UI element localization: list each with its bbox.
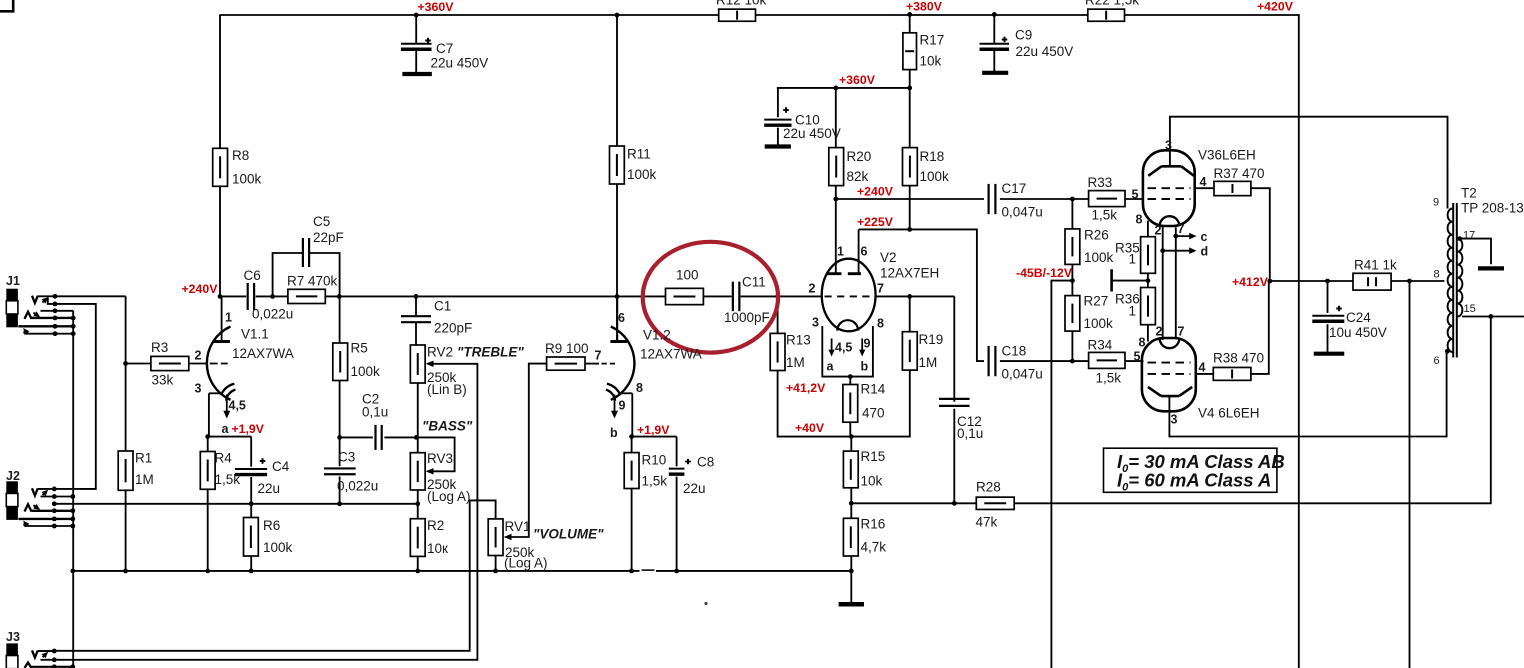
svg-text:C3: C3 xyxy=(338,450,355,465)
svg-text:R36: R36 xyxy=(1115,292,1140,307)
svg-text:C4: C4 xyxy=(272,459,290,474)
svg-text:R35: R35 xyxy=(1115,241,1140,256)
svg-text:C1: C1 xyxy=(434,299,451,314)
svg-text:9: 9 xyxy=(864,337,871,351)
svg-text:RV1: RV1 xyxy=(505,519,531,534)
svg-text:R15: R15 xyxy=(861,449,886,464)
svg-text:R37 470: R37 470 xyxy=(1214,166,1265,181)
svg-text:3: 3 xyxy=(195,382,202,396)
svg-text:9: 9 xyxy=(1433,197,1439,209)
svg-text:"VOLUME": "VOLUME" xyxy=(533,527,604,542)
svg-text:0,022u: 0,022u xyxy=(252,307,293,322)
svg-text:22u: 22u xyxy=(683,481,706,496)
svg-text:7: 7 xyxy=(877,282,884,296)
svg-text:R27: R27 xyxy=(1084,294,1109,309)
svg-text:R8: R8 xyxy=(232,148,249,163)
svg-text:T2: T2 xyxy=(1461,186,1477,201)
svg-text:6: 6 xyxy=(1434,355,1440,367)
svg-text:C9: C9 xyxy=(1015,28,1032,43)
svg-text:+41,2V: +41,2V xyxy=(786,381,826,395)
svg-text:100k: 100k xyxy=(351,364,381,379)
svg-text:1,5k: 1,5k xyxy=(642,474,668,489)
svg-text:-45B/-12V: -45B/-12V xyxy=(1016,266,1073,280)
svg-text:47k: 47k xyxy=(976,515,998,530)
svg-text:R28: R28 xyxy=(976,480,1001,495)
svg-text:15: 15 xyxy=(1464,303,1476,315)
svg-text:10к: 10к xyxy=(427,541,448,556)
svg-text:+360V: +360V xyxy=(418,0,455,14)
svg-text:R5: R5 xyxy=(351,341,368,356)
svg-text:470: 470 xyxy=(862,406,885,421)
svg-text:R1: R1 xyxy=(135,451,152,466)
svg-text:R41 1k: R41 1k xyxy=(1354,258,1397,273)
svg-text:0,1u: 0,1u xyxy=(362,405,388,420)
svg-text:22u 450V: 22u 450V xyxy=(783,126,841,141)
svg-text:22u: 22u xyxy=(258,481,281,496)
svg-text:+412V: +412V xyxy=(1232,275,1269,289)
svg-text:R16: R16 xyxy=(861,517,886,532)
svg-text:C5: C5 xyxy=(313,214,330,229)
svg-text:3: 3 xyxy=(812,316,819,330)
svg-text:100k: 100k xyxy=(263,540,293,555)
svg-text:+360V: +360V xyxy=(839,73,876,87)
svg-text:R10: R10 xyxy=(642,453,667,468)
svg-text:5: 5 xyxy=(1134,350,1141,364)
svg-text:R26: R26 xyxy=(1084,228,1109,243)
svg-text:12AX7EH: 12AX7EH xyxy=(880,266,939,281)
svg-text:22u 450V: 22u 450V xyxy=(1016,44,1074,59)
svg-text:V36L6EH: V36L6EH xyxy=(1198,148,1256,163)
svg-text:"TREBLE": "TREBLE" xyxy=(457,345,524,360)
svg-text:TP 208-133: TP 208-133 xyxy=(1461,201,1524,216)
svg-text:I0= 60 mA Class A: I0= 60 mA Class A xyxy=(1117,470,1271,494)
svg-text:82k: 82k xyxy=(847,169,869,184)
svg-text:(Log A): (Log A) xyxy=(504,556,548,571)
svg-text:7: 7 xyxy=(595,349,602,363)
svg-text:1M: 1M xyxy=(135,472,154,487)
svg-text:8: 8 xyxy=(1139,336,1146,350)
svg-text:1: 1 xyxy=(1129,304,1137,319)
svg-text:b: b xyxy=(610,426,618,440)
svg-text:100k: 100k xyxy=(1084,250,1114,265)
svg-text:1: 1 xyxy=(225,311,232,325)
svg-text:0,022u: 0,022u xyxy=(337,479,378,494)
svg-text:+240V: +240V xyxy=(182,282,219,296)
svg-text:1: 1 xyxy=(837,245,844,259)
svg-text:R2: R2 xyxy=(427,518,444,533)
svg-text:d: d xyxy=(1201,245,1209,259)
svg-text:R11: R11 xyxy=(627,147,651,162)
svg-text:+380V: +380V xyxy=(906,0,943,14)
svg-text:J2: J2 xyxy=(6,469,20,483)
svg-text:RV2: RV2 xyxy=(427,345,453,360)
svg-text:8: 8 xyxy=(1136,213,1143,227)
svg-text:1M: 1M xyxy=(786,355,805,370)
svg-text:2: 2 xyxy=(1155,224,1162,238)
svg-text:R33: R33 xyxy=(1088,175,1113,190)
svg-text:6: 6 xyxy=(618,311,625,325)
svg-text:+40V: +40V xyxy=(795,421,825,435)
svg-text:R12 10k: R12 10k xyxy=(716,0,767,8)
svg-text:R17: R17 xyxy=(920,33,945,48)
svg-text:C18: C18 xyxy=(1002,344,1027,359)
svg-text:R9 100: R9 100 xyxy=(545,341,589,356)
svg-text:+1,9V: +1,9V xyxy=(232,422,265,436)
svg-text:22pF: 22pF xyxy=(313,230,344,245)
svg-text:V1.2: V1.2 xyxy=(643,328,671,343)
svg-text:C7: C7 xyxy=(436,41,453,56)
svg-text:4: 4 xyxy=(1200,175,1207,189)
svg-text:"BASS": "BASS" xyxy=(422,419,473,434)
svg-text:17: 17 xyxy=(1463,230,1475,242)
svg-text:1,5k: 1,5k xyxy=(215,472,241,487)
svg-text:3: 3 xyxy=(1171,413,1178,427)
svg-text:6: 6 xyxy=(861,245,868,259)
svg-text:C8: C8 xyxy=(697,455,714,470)
svg-text:220pF: 220pF xyxy=(434,321,472,336)
svg-text:4,7k: 4,7k xyxy=(861,540,887,555)
svg-text:9: 9 xyxy=(619,399,626,413)
svg-text:C11: C11 xyxy=(742,275,766,290)
svg-text:10u 450V: 10u 450V xyxy=(1329,325,1387,340)
svg-text:b: b xyxy=(861,360,869,374)
svg-text:R4: R4 xyxy=(215,451,233,466)
svg-text:100: 100 xyxy=(676,268,699,283)
svg-text:7: 7 xyxy=(1178,325,1185,339)
svg-text:a: a xyxy=(827,360,835,374)
svg-text:V2: V2 xyxy=(880,250,897,265)
svg-text:2: 2 xyxy=(195,349,202,363)
svg-text:100k: 100k xyxy=(627,167,657,182)
svg-text:8: 8 xyxy=(877,317,884,331)
svg-text:1000pF: 1000pF xyxy=(724,310,770,325)
svg-text:2: 2 xyxy=(1156,325,1163,339)
svg-text:R7 470k: R7 470k xyxy=(287,274,338,289)
svg-text:10k: 10k xyxy=(920,54,942,69)
svg-text:(Log A): (Log A) xyxy=(427,489,471,504)
svg-text:8: 8 xyxy=(636,381,643,395)
svg-text:+1,9V: +1,9V xyxy=(637,423,670,437)
svg-text:0,047u: 0,047u xyxy=(1002,205,1043,220)
svg-text:R22 1,5k: R22 1,5k xyxy=(1085,0,1139,8)
svg-text:V4 6L6EH: V4 6L6EH xyxy=(1198,406,1260,421)
svg-text:J1: J1 xyxy=(6,274,20,288)
svg-text:R18: R18 xyxy=(920,149,945,164)
svg-text:(Lin B): (Lin B) xyxy=(427,382,467,397)
svg-text:5: 5 xyxy=(1132,188,1139,202)
svg-text:12AX7WA: 12AX7WA xyxy=(232,346,294,361)
svg-text:C24: C24 xyxy=(1346,310,1371,325)
svg-text:a: a xyxy=(222,422,230,436)
svg-text:4,5: 4,5 xyxy=(835,341,852,355)
svg-text:12AX7WA: 12AX7WA xyxy=(640,347,702,362)
svg-text:R38 470: R38 470 xyxy=(1213,351,1264,366)
svg-text:R20: R20 xyxy=(847,149,872,164)
svg-text:+420V: +420V xyxy=(1257,0,1294,14)
svg-text:1,5k: 1,5k xyxy=(1096,371,1122,386)
svg-text:2: 2 xyxy=(809,282,816,296)
svg-text:22u 450V: 22u 450V xyxy=(431,56,489,71)
svg-text:V1.1: V1.1 xyxy=(241,327,269,342)
svg-text:4,5: 4,5 xyxy=(229,399,246,413)
svg-text:33k: 33k xyxy=(152,373,174,388)
svg-text:1,5k: 1,5k xyxy=(1092,208,1118,223)
svg-text:7: 7 xyxy=(1178,222,1185,236)
svg-text:0,1u: 0,1u xyxy=(957,426,983,441)
svg-text:R6: R6 xyxy=(263,518,280,533)
svg-text:+225V: +225V xyxy=(857,215,894,229)
svg-text:R14: R14 xyxy=(861,382,886,397)
svg-text:C6: C6 xyxy=(244,268,261,283)
svg-text:R3: R3 xyxy=(151,340,168,355)
svg-text:RV3: RV3 xyxy=(427,451,453,466)
svg-text:R13: R13 xyxy=(786,333,811,348)
svg-text:c: c xyxy=(1201,230,1208,244)
svg-text:R34: R34 xyxy=(1088,338,1113,353)
svg-text:100k: 100k xyxy=(920,169,950,184)
svg-text:C17: C17 xyxy=(1002,181,1027,196)
svg-text:100k: 100k xyxy=(1084,316,1114,331)
svg-text:R19: R19 xyxy=(919,332,944,347)
svg-text:4: 4 xyxy=(1199,361,1206,375)
svg-text:1M: 1M xyxy=(919,355,938,370)
svg-text:3: 3 xyxy=(1165,139,1172,153)
svg-text:J3: J3 xyxy=(6,630,20,644)
svg-text:8: 8 xyxy=(1434,269,1440,281)
svg-text:10k: 10k xyxy=(861,474,883,489)
svg-text:+240V: +240V xyxy=(857,185,894,199)
svg-text:0,047u: 0,047u xyxy=(1002,367,1043,382)
svg-text:100k: 100k xyxy=(232,172,262,187)
svg-text:1: 1 xyxy=(1129,252,1137,267)
